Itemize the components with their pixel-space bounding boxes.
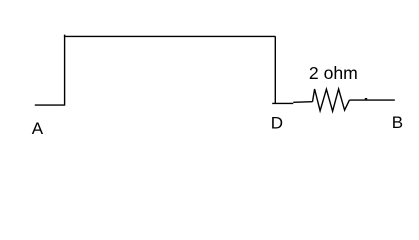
svg-text:D: D: [271, 114, 283, 133]
svg-text:B: B: [392, 113, 403, 132]
svg-text:2 ohm: 2 ohm: [309, 63, 358, 83]
svg-text:A: A: [32, 119, 44, 138]
